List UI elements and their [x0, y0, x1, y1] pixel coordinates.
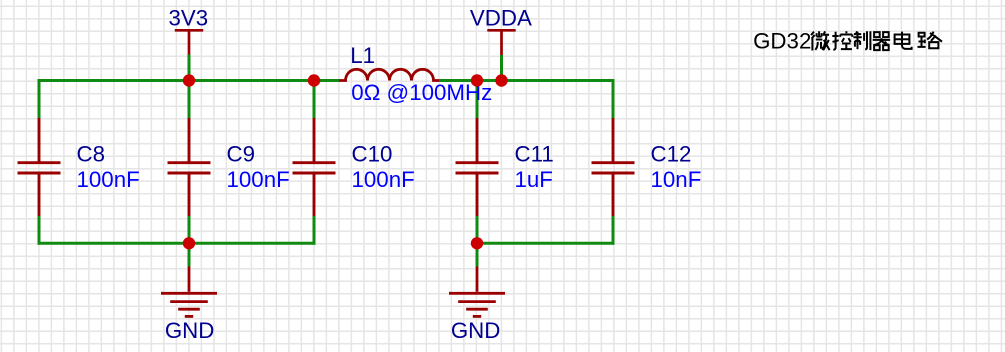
svg-text:1uF: 1uF: [515, 167, 553, 192]
svg-text:100nF: 100nF: [77, 167, 140, 192]
wire C8 bottom branch: [38, 216, 41, 245]
ground symbol right: [449, 267, 505, 317]
svg-text:10nF: 10nF: [651, 167, 702, 192]
capacitor C10: [293, 118, 336, 216]
wire C9 bottom branch: [188, 216, 191, 243]
svg-text:L1: L1: [350, 43, 375, 68]
wire C11 top branch: [476, 81, 479, 119]
wire GND left stem: [188, 243, 191, 266]
char 路: [918, 32, 943, 49]
title GD32微控制器电路: [753, 28, 942, 53]
wire C9 top branch: [188, 81, 191, 119]
junction at bottom rail / C9 / GND: [183, 237, 195, 249]
junction at rail / VDDA: [495, 74, 507, 86]
capacitor C11: [456, 118, 499, 216]
wire C10 bottom branch: [313, 216, 316, 245]
wire C12 bottom branch: [612, 216, 615, 245]
wire bottom rail right: [477, 242, 614, 245]
wire GND right stem: [476, 243, 479, 266]
wire VDDA stem: [500, 55, 503, 81]
svg-text:100nF: 100nF: [227, 167, 290, 192]
power flag VDDA: [487, 30, 515, 55]
capacitor C9: [168, 118, 211, 216]
wire top rail left (3V3 rail): [38, 79, 339, 82]
capacitor C12: [592, 118, 635, 216]
svg-text:C11: C11: [515, 141, 554, 166]
svg-text:VDDA: VDDA: [470, 5, 532, 30]
svg-text:C10: C10: [352, 141, 393, 166]
svg-text:100nF: 100nF: [352, 167, 415, 192]
wire C10 top branch: [313, 81, 316, 119]
char 制: [853, 31, 870, 50]
svg-text:GND: GND: [451, 318, 501, 343]
wire C8 top branch: [38, 79, 41, 118]
junction at bottom rail / C11 / GND: [471, 237, 483, 249]
char 电: [895, 32, 912, 49]
wire 3V3 stem: [188, 55, 191, 81]
svg-text:GND: GND: [165, 318, 215, 343]
svg-text:GD32: GD32: [753, 28, 811, 53]
svg-text:C9: C9: [227, 141, 256, 166]
char 微: [811, 31, 830, 50]
junction at rail / C10: [308, 74, 320, 86]
junction at rail / C11: [471, 74, 483, 86]
inductor L1: [339, 69, 439, 80]
wire C11 bottom branch: [476, 216, 479, 243]
char 器: [873, 32, 890, 50]
junction at 3V3 rail / C9: [183, 74, 195, 86]
wire C12 top branch: [612, 79, 615, 118]
svg-text:C8: C8: [77, 141, 106, 166]
capacitor C8: [18, 118, 61, 216]
wire top rail right (VDDA rail): [439, 79, 614, 82]
ground symbol left: [161, 267, 217, 317]
svg-text:3V3: 3V3: [168, 5, 208, 30]
svg-text:0Ω @100MHz: 0Ω @100MHz: [351, 80, 492, 105]
wire bottom rail left: [38, 242, 316, 245]
char 控: [832, 31, 852, 49]
power flag 3V3: [175, 30, 203, 54]
svg-text:C12: C12: [651, 141, 692, 166]
